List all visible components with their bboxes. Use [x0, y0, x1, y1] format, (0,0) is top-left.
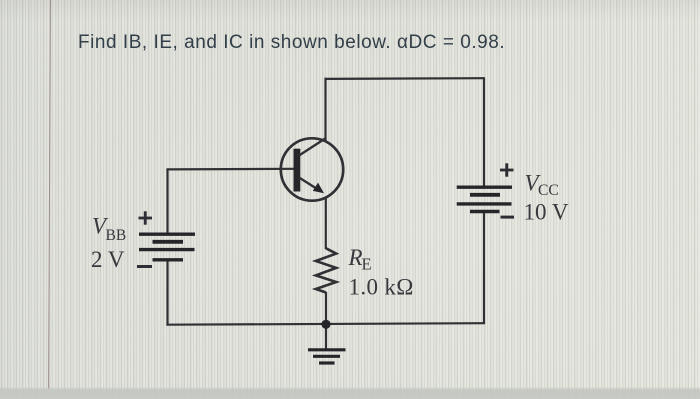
battery VBB plate 1 (long +)	[139, 232, 195, 235]
battery VBB plate 2 (short)	[153, 240, 184, 244]
battery VCC plate 2 (short)	[470, 193, 500, 197]
wire: ground stub	[325, 324, 327, 350]
wire: resistor RE to junction	[325, 292, 327, 324]
wire: left upper (base wire down to VBB battery)	[166, 169, 168, 234]
transistor Q1 emitter line with arrow	[299, 178, 318, 190]
battery VCC plate 3 (long)	[457, 202, 512, 205]
junction node dot	[321, 320, 330, 329]
transistor Q1 base bar	[294, 149, 301, 192]
wire: collector vertical (top wire down to transistor)	[324, 78, 326, 141]
wire: emitter vertical (transistor down to resistor RE)	[325, 198, 327, 250]
battery VCC minus sign	[501, 216, 515, 219]
battery VCC plate 4 (short -)	[470, 210, 500, 213]
battery VBB plate 4 (short -)	[153, 258, 184, 261]
battery VBB plus sign	[139, 211, 153, 224]
wire: right upper (top wire to VCC battery)	[483, 77, 485, 187]
ground bar 3	[319, 361, 335, 364]
bottom darker strip	[0, 387, 700, 399]
wire: bottom (left rail to right rail)	[166, 323, 485, 325]
ground bar 1	[308, 348, 346, 351]
wire: base (left rail to transistor base)	[166, 168, 294, 171]
wire: right lower (VCC battery to bottom wire)	[483, 212, 485, 325]
resistor RE zigzag	[316, 248, 336, 292]
battery VCC	[457, 187, 512, 211]
transistor Q1 emitter arrowhead	[313, 183, 324, 194]
battery VCC plus sign	[500, 163, 514, 176]
transistor Q1 collector line	[299, 138, 326, 156]
battery VCC plate 1 (long +)	[457, 185, 512, 188]
vertical screen-bezel line	[47, 0, 50, 389]
transistor Q1 circle	[281, 138, 343, 200]
wire: top (collector to VCC)	[326, 77, 485, 80]
wire: left lower (VBB battery to bottom wire)	[166, 260, 168, 326]
title text	[78, 32, 505, 54]
transistor Q1	[281, 138, 343, 201]
battery VBB plate 3 (long)	[139, 248, 195, 251]
ground bar 2	[313, 355, 340, 358]
battery VBB minus sign	[137, 265, 152, 268]
battery VBB	[139, 234, 195, 260]
ground symbol	[308, 350, 346, 363]
